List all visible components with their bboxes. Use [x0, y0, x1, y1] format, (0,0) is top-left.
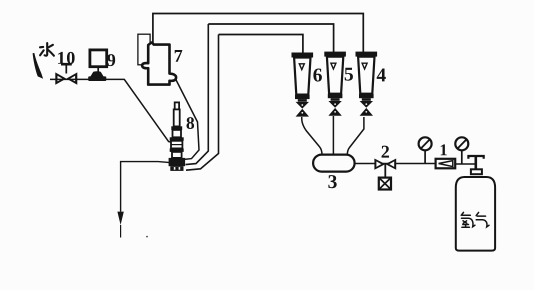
pipe burette 5 to vessel 3	[332, 116, 334, 155]
pipe burette 6 to vessel 3	[302, 117, 322, 155]
cylinder valve handle	[468, 156, 483, 159]
label 水 (water)	[40, 43, 54, 56]
label 4	[377, 69, 386, 82]
label 8	[187, 117, 195, 129]
gauge 9 base	[90, 71, 103, 76]
gauge 9 box	[90, 50, 107, 67]
pipe burette 4 to vessel 3	[347, 117, 364, 155]
label 10	[58, 52, 74, 64]
label 气 (gas)	[476, 212, 489, 227]
speck	[146, 236, 148, 238]
pipe line1 (top pipe to burette 4)	[153, 14, 363, 55]
label 氢 (hydrogen)	[461, 212, 475, 227]
valve 2 vent box	[379, 178, 391, 190]
burette 5	[324, 52, 346, 116]
valve 2 vent stem	[384, 164, 386, 178]
burette 6	[292, 53, 314, 117]
pipe line2 drop to burner	[186, 24, 209, 165]
pipe regulator to cylinder valve	[455, 163, 475, 165]
label 5	[345, 68, 353, 81]
burette 4	[356, 52, 378, 116]
gauge 9 stem	[97, 67, 99, 74]
valve 10	[55, 72, 77, 84]
burner 8 (atomizer)	[169, 102, 186, 170]
separator 7 side tube	[138, 34, 150, 65]
separator 7 body	[142, 43, 176, 85]
pipe line3 drop to burner	[186, 35, 219, 171]
hydrogen cylinder	[456, 177, 495, 251]
water inlet arrow	[33, 53, 44, 79]
gauge right of regulator	[455, 137, 468, 150]
drain pipe from burner	[121, 162, 170, 212]
label 1	[441, 144, 447, 155]
cylinder valve stem	[474, 156, 477, 169]
label 7	[175, 50, 183, 62]
label 9	[107, 54, 115, 66]
pipe separator 7 to burner 8	[175, 79, 199, 160]
cylinder neck	[471, 169, 482, 174]
vessel 3	[313, 155, 355, 172]
valve 2	[374, 159, 396, 170]
label 6	[313, 68, 322, 81]
drain arrow	[117, 212, 123, 225]
label 3	[328, 175, 336, 188]
pipe water line	[50, 79, 172, 142]
gauge left of regulator	[419, 137, 432, 150]
regulator 1	[436, 159, 456, 169]
label 2	[382, 146, 389, 158]
pipe line3 (to burette 6)	[219, 35, 303, 55]
pipe line2 (to burette 5)	[208, 24, 333, 54]
pipe vessel 3 to regulator	[355, 163, 436, 165]
valve 10 stem	[61, 64, 72, 73]
